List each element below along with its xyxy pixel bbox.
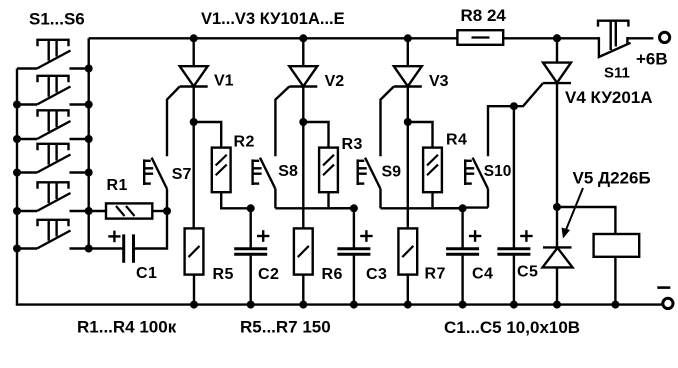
wire R5 to bottom rail [193, 275, 195, 305]
junction node above C2 [247, 204, 255, 212]
switch S1 [17, 40, 89, 69]
svg-text:R5...R7 150: R5...R7 150 [240, 317, 331, 336]
svg-text:S9: S9 [382, 164, 402, 181]
wire V1 node to R2 [194, 122, 222, 148]
resistor R5 [185, 228, 204, 274]
terminal +6V [660, 32, 670, 42]
svg-text:S1...S6: S1...S6 [29, 10, 85, 29]
wire V3 cathode down [407, 87, 409, 229]
wire V4 gate [488, 83, 543, 156]
junction relay bottom rail [611, 301, 619, 309]
junction R5 bottom rail [190, 301, 198, 309]
label minus [657, 286, 670, 289]
relay K1 coil [594, 234, 640, 257]
wire R4 to node [433, 192, 463, 208]
svg-text:S11: S11 [604, 65, 630, 82]
wire C1 to S7 node [134, 211, 168, 249]
svg-text:V1: V1 [214, 73, 234, 90]
resistor R6 [294, 228, 313, 274]
junction C3 bottom rail [350, 301, 358, 309]
junction V1 anode / top rail [190, 34, 198, 42]
junction C5 top node [510, 102, 518, 110]
svg-text:V1...V3 КУ101А...Е: V1...V3 КУ101А...Е [201, 10, 345, 28]
junction left bus rung [13, 169, 21, 177]
svg-text:S7: S7 [172, 166, 192, 183]
resistor R3 [319, 148, 338, 193]
wire relay to bottom rail [614, 257, 616, 305]
svg-text:V5 Д226Б: V5 Д226Б [573, 169, 651, 188]
wire V3 gate [381, 87, 394, 157]
svg-text:C4: C4 [472, 266, 493, 283]
left bus wire [16, 69, 18, 305]
top rail wire [89, 37, 654, 39]
switch S7 [144, 158, 167, 211]
resistor R8 [457, 30, 503, 45]
svg-text:R8 24: R8 24 [461, 6, 507, 25]
wire S10 to node [463, 206, 488, 208]
thyristor V1 [180, 38, 208, 86]
wire V1 cathode down [192, 87, 194, 229]
wire S9 to node [381, 207, 463, 209]
svg-text:S8: S8 [278, 163, 298, 180]
wire S8 to node [275, 207, 354, 209]
bottom rail wire [16, 303, 663, 305]
junction R7 bottom rail [404, 301, 412, 309]
capacitor C1 [108, 231, 133, 263]
junction C2 bottom rail [247, 301, 255, 309]
svg-text:+6В: +6В [636, 50, 668, 69]
wire R3 to node [329, 192, 354, 208]
junction V2 anode / top rail [299, 34, 307, 42]
svg-text:R7: R7 [425, 266, 446, 283]
junction right bus rung S4 [85, 169, 93, 177]
svg-text:С1...С5 10,0х10В: С1...С5 10,0х10В [444, 318, 580, 337]
junction right bus rung S1 [85, 65, 93, 73]
thyristor V2 [289, 38, 317, 86]
switch S8 [253, 158, 276, 209]
svg-text:R2: R2 [234, 134, 255, 151]
junction node above C4 [459, 204, 467, 212]
wire V1 gate [167, 87, 180, 157]
junction V5 bottom rail [553, 301, 561, 309]
junction V2 cathode node [299, 118, 307, 126]
diode V5 [543, 247, 573, 304]
switch S11 [598, 21, 631, 57]
junction V4 cathode / relay node [553, 203, 561, 211]
junction left bus rung [13, 207, 21, 215]
svg-text:V3: V3 [429, 73, 449, 90]
junction R6 bottom rail [299, 301, 307, 309]
wire R7 to bottom rail [407, 275, 409, 305]
right bus wire [87, 38, 89, 248]
svg-text:S10: S10 [484, 163, 512, 180]
resistor R1 [106, 203, 152, 218]
resistor R4 [423, 148, 442, 193]
junction V3 cathode node [404, 118, 412, 126]
wire V2 cathode down [302, 87, 304, 229]
svg-text:V2: V2 [325, 73, 345, 90]
wire relay feed [557, 207, 615, 234]
capacitor C4 [446, 208, 481, 304]
terminal minus [663, 298, 673, 308]
junction right bus rung S6 [85, 245, 93, 253]
junction S11 left / V4 node [553, 34, 561, 42]
svg-text:R5: R5 [213, 266, 234, 283]
junction right bus rung S2 [85, 101, 93, 109]
wire V2 gate [275, 87, 289, 157]
capacitor C5 [497, 106, 532, 304]
svg-text:V4 КУ201А: V4 КУ201А [565, 88, 653, 107]
svg-text:C3: C3 [366, 266, 387, 283]
capacitor C3 [337, 208, 372, 304]
junction left bus rung [13, 245, 21, 253]
junction right bus rung S3 [85, 135, 93, 143]
switch S5 [17, 182, 89, 211]
junction left bus rung [13, 135, 21, 143]
svg-text:R3: R3 [342, 136, 363, 153]
switch S3 [17, 110, 89, 139]
resistor R2 [212, 148, 231, 193]
junction V1 cathode node [190, 118, 198, 126]
junction C4 bottom rail [459, 301, 467, 309]
junction node above C3 [350, 204, 358, 212]
wire V4 cathode down [556, 83, 558, 247]
junction right bus rung S5 [85, 207, 93, 215]
svg-text:C2: C2 [258, 266, 279, 283]
capacitor C2 [234, 208, 269, 304]
junction V3 anode / top rail [404, 34, 412, 42]
wire V3 node to R4 [408, 122, 433, 148]
svg-text:C1: C1 [136, 265, 157, 282]
junction C5 bottom rail [510, 301, 518, 309]
svg-text:C5: C5 [517, 264, 538, 281]
svg-text:R6: R6 [322, 266, 343, 283]
switch S2 [17, 76, 89, 105]
thyristor V4 [543, 38, 571, 83]
switch S6 [17, 220, 89, 249]
wire R1 to node [152, 210, 167, 212]
wire V2 node to R3 [303, 122, 328, 148]
wire bus to R1 [89, 210, 106, 212]
svg-text:R1...R4 100к: R1...R4 100к [77, 317, 177, 336]
junction V4 anode / top rail [553, 34, 561, 42]
resistor R7 [398, 228, 417, 274]
switch S9 [358, 158, 381, 209]
wire R6 to bottom rail [302, 275, 304, 305]
arrow V5 label to diode [562, 188, 584, 239]
switch S10 [465, 158, 488, 208]
svg-text:R4: R4 [446, 132, 467, 149]
junction R1 / S7 / C1 node [163, 207, 171, 215]
thyristor V3 [394, 38, 422, 86]
svg-text:R1: R1 [107, 177, 128, 194]
wire R2 to node [221, 192, 251, 208]
switch S4 [17, 144, 89, 173]
wire bus to C1 [89, 247, 124, 249]
junction left bus rung [13, 101, 21, 109]
